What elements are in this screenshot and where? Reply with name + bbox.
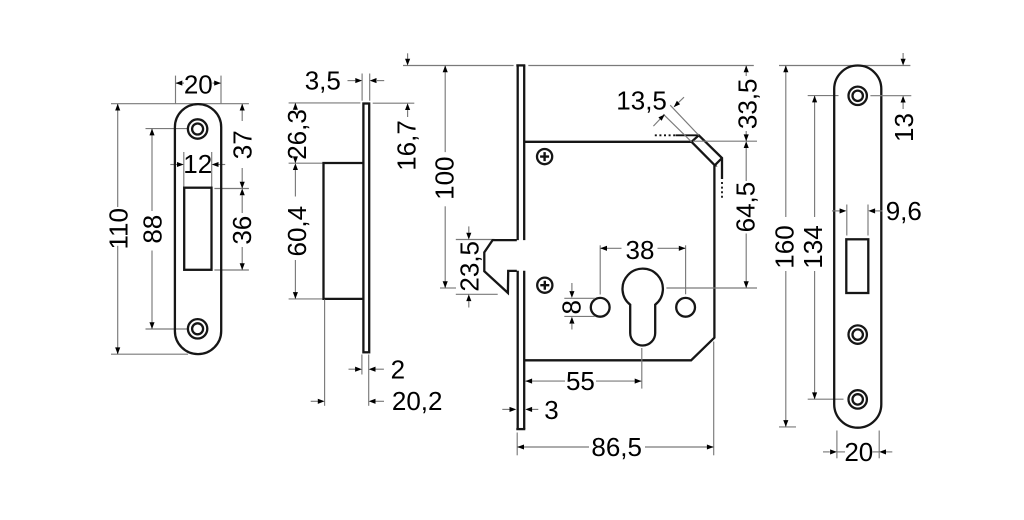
strike plate top screw hole bbox=[188, 119, 207, 138]
dim 8 arrows bbox=[571, 283, 573, 291]
svg-text:55: 55 bbox=[566, 366, 595, 396]
faceplate bolt cutout bbox=[846, 239, 868, 293]
bolt hidden edge dotted horizontal bbox=[655, 134, 676, 136]
svg-text:64,5: 64,5 bbox=[730, 182, 760, 233]
dim 64,5 line bbox=[745, 148, 747, 181]
dim 13,5 arrow lower bbox=[653, 119, 660, 126]
faceplate edge view left line bbox=[517, 65, 519, 429]
dim 37 line bbox=[241, 104, 243, 121]
fixing screw lower bbox=[537, 278, 552, 293]
cylinder centre extension line bbox=[666, 287, 757, 289]
dim 160 line bbox=[785, 66, 787, 218]
dim 110 line bbox=[117, 104, 119, 207]
strike plate side profile bbox=[363, 104, 369, 353]
strike plate bottom screw hole bbox=[188, 319, 207, 338]
faceplate outline bbox=[834, 66, 881, 428]
left bolt hole bbox=[591, 298, 610, 317]
dim 16,7 arrows bbox=[407, 53, 409, 59]
screw centre extension line right bbox=[870, 95, 911, 97]
dim 110 bottom extension line bbox=[111, 353, 188, 355]
svg-text:3,5: 3,5 bbox=[305, 65, 341, 95]
svg-text:26,3: 26,3 bbox=[282, 109, 312, 160]
dim 55 line bbox=[525, 380, 565, 382]
faceplate bottom cap bbox=[516, 428, 525, 430]
dim 37 right extension line bbox=[214, 188, 249, 190]
dim 26,3 top extension line bbox=[289, 102, 361, 104]
dim 20 extension lines bbox=[175, 76, 177, 104]
svg-text:13,5: 13,5 bbox=[616, 85, 667, 115]
right bolt hole bbox=[676, 298, 695, 317]
faceplate top cap bbox=[516, 64, 525, 66]
dim 134 bottom extension line bbox=[808, 398, 844, 400]
svg-text:20: 20 bbox=[184, 69, 213, 99]
dim 20,2 left extension line bbox=[324, 300, 326, 406]
svg-text:38: 38 bbox=[626, 235, 655, 265]
dim 86,5 left extension line bbox=[516, 433, 518, 456]
dim 2 arrows bbox=[349, 368, 356, 370]
dim 23,5 top extension line bbox=[456, 239, 495, 241]
dim 23,5 arrows bbox=[468, 226, 470, 232]
dim 36 bottom extension line bbox=[214, 269, 249, 271]
svg-text:12: 12 bbox=[183, 149, 212, 179]
dim 9,6 arrows bbox=[832, 210, 840, 212]
dim 3 arrows bbox=[502, 408, 510, 410]
bolt tip beak at chamfered corner bbox=[692, 135, 723, 179]
dim 100 cylinder extension line bbox=[440, 287, 456, 289]
dim 13 arrows bbox=[902, 53, 904, 59]
dim 100 line bbox=[444, 66, 446, 153]
svg-text:9,6: 9,6 bbox=[886, 196, 922, 226]
dim 88 top extension line bbox=[146, 128, 189, 130]
svg-text:8: 8 bbox=[556, 300, 586, 314]
top extension line bbox=[403, 65, 514, 67]
fixing screw upper bbox=[537, 149, 552, 164]
euro profile cylinder hole bbox=[623, 269, 663, 346]
dim 8 extension lines bbox=[564, 297, 595, 299]
svg-text:60,4: 60,4 bbox=[282, 206, 312, 257]
dim 36 line bbox=[241, 195, 243, 213]
svg-text:2: 2 bbox=[391, 355, 405, 385]
svg-text:20,2: 20,2 bbox=[392, 386, 443, 416]
dim 38 extension lines bbox=[599, 245, 601, 294]
dim 16,7 bottom extension line bbox=[373, 102, 415, 104]
svg-text:23,5: 23,5 bbox=[455, 241, 485, 292]
svg-text:37: 37 bbox=[227, 130, 257, 159]
dim 20 extension lines bbox=[836, 431, 838, 459]
svg-text:36: 36 bbox=[227, 216, 257, 245]
dim 3,5 arrows bbox=[348, 80, 356, 82]
strike plate outline bbox=[175, 104, 221, 354]
faceplate top screw hole bbox=[849, 87, 867, 105]
dim 160 bottom extension line bbox=[779, 426, 796, 428]
bolt hidden edge dotted vertical bbox=[721, 182, 723, 198]
strike plate latch cutout bbox=[184, 188, 211, 270]
hook bolt protruding through faceplate bbox=[484, 240, 517, 293]
faceplate edge view right line bbox=[523, 65, 525, 429]
dim 38 line bbox=[600, 247, 621, 249]
top extension line bbox=[779, 65, 910, 67]
dim 86,5 line bbox=[517, 446, 589, 448]
svg-text:20: 20 bbox=[844, 437, 873, 467]
strike box outline bbox=[324, 163, 364, 299]
dim 86,5 right extension line bbox=[713, 342, 715, 456]
dim 9,6 extension lines bbox=[846, 205, 848, 236]
box top extension line bbox=[289, 162, 324, 164]
dim 13,5 extension diagonals bbox=[670, 105, 699, 135]
dim 13,5 arrow upper bbox=[679, 97, 685, 102]
cylinder axis extension line bbox=[641, 348, 643, 389]
dim 110 top extension line bbox=[111, 103, 249, 105]
dim 23,5 bottom extension line bbox=[456, 293, 498, 295]
dim 60,4 line bbox=[294, 170, 296, 197]
svg-text:16,7: 16,7 bbox=[391, 120, 421, 171]
dim 20 line bbox=[176, 82, 185, 84]
svg-text:3: 3 bbox=[544, 395, 558, 425]
dim 88 bottom extension line bbox=[146, 328, 188, 330]
svg-text:100: 100 bbox=[430, 157, 460, 200]
dim 3,5 extension lines bbox=[361, 74, 363, 101]
dim 12 extension lines bbox=[183, 152, 185, 187]
dim 20 line and arrows bbox=[837, 451, 845, 453]
svg-text:13: 13 bbox=[889, 113, 919, 142]
dim 88 line bbox=[151, 129, 153, 211]
faceplate bottom screw hole bbox=[849, 390, 867, 408]
svg-text:33,5: 33,5 bbox=[733, 78, 763, 129]
faceplate middle screw hole bbox=[849, 325, 867, 343]
box bottom extension line bbox=[289, 298, 324, 300]
svg-text:160: 160 bbox=[770, 225, 800, 268]
dim 20,2 arrows bbox=[311, 400, 318, 402]
svg-text:86,5: 86,5 bbox=[591, 432, 642, 462]
dim 134 line bbox=[814, 96, 816, 217]
svg-text:134: 134 bbox=[798, 225, 828, 268]
svg-text:110: 110 bbox=[104, 208, 134, 249]
dim 134 top extension line bbox=[808, 95, 839, 97]
bolt tip top edge bbox=[676, 134, 699, 136]
lock case outline bbox=[524, 142, 715, 360]
dim 12 arrows bbox=[170, 164, 177, 166]
case top extension line bbox=[693, 140, 757, 142]
dim 33,5 line bbox=[745, 66, 747, 77]
dim 2 extension lines bbox=[361, 355, 363, 375]
dim 26,3 line bbox=[294, 103, 296, 110]
svg-text:88: 88 bbox=[138, 215, 168, 244]
